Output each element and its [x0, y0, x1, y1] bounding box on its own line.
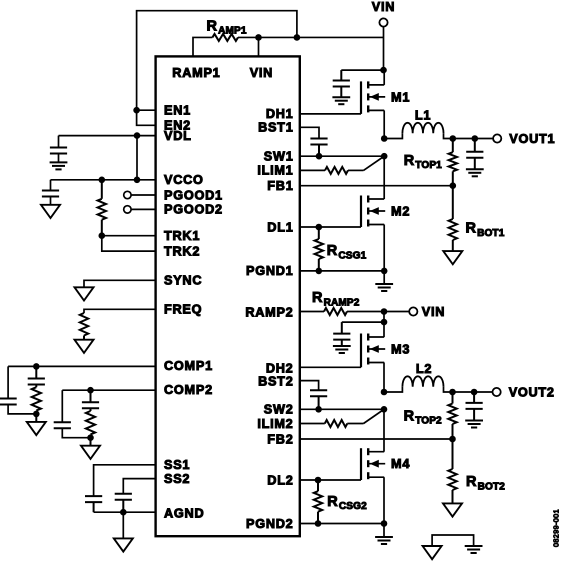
svg-text:BST2: BST2: [258, 375, 293, 389]
node EN1: [133, 107, 140, 114]
svg-text:M1: M1: [391, 90, 410, 104]
svg-text:EN1: EN1: [164, 104, 191, 118]
ground (tie, analog): [423, 546, 442, 559]
svg-text:L2: L2: [416, 362, 432, 376]
figure number 08299-001: [552, 509, 561, 547]
ground (R_BOT1): [443, 251, 462, 264]
node PGND1: [381, 268, 388, 275]
svg-text:PGND1: PGND1: [246, 264, 293, 278]
resistor R_ILIM1: [325, 167, 348, 174]
ground (tie, power): [465, 546, 483, 553]
svg-text:DL2: DL2: [267, 473, 293, 487]
node SW1: [381, 153, 388, 160]
inductor L1: [384, 109, 453, 139]
wire RAMP2 to VIN2: [347, 311, 409, 313]
controller U1 ADP1829: [156, 56, 300, 536]
resistor R_BOT1: [449, 186, 505, 251]
wire TRK1: [102, 235, 156, 237]
svg-text:SS2: SS2: [164, 472, 190, 486]
ground (PGND1): [375, 271, 393, 291]
node TRK tie: [99, 232, 106, 239]
node PGND2: [381, 520, 388, 527]
svg-text:VDL: VDL: [164, 129, 192, 143]
svg-text:DH1: DH1: [266, 107, 294, 121]
capacitor C_BST1: [310, 139, 327, 157]
wire VDL to VCCO: [136, 136, 138, 180]
svg-text:VIN: VIN: [250, 66, 273, 80]
transistor M3: [361, 334, 410, 368]
svg-text:VIN: VIN: [372, 0, 395, 14]
node VDL: [134, 132, 141, 139]
resistor R_CSG1: [315, 227, 367, 271]
wire FREQ: [84, 309, 156, 313]
wire BST2: [300, 381, 319, 391]
svg-text:R: R: [207, 18, 218, 34]
resistor R_FREQ: [80, 313, 88, 336]
resistor R_COMP1: [32, 385, 41, 411]
ground (COMP1): [27, 414, 46, 435]
wire PGND1: [300, 270, 384, 272]
wire PGND2: [300, 523, 384, 525]
svg-text:VOUT2: VOUT2: [509, 386, 555, 400]
node VIN2 cap tap: [381, 319, 388, 326]
capacitor C_IN1: [333, 70, 350, 86]
svg-text:BOT1: BOT1: [477, 228, 505, 239]
svg-text:AGND: AGND: [164, 506, 204, 520]
svg-text:M3: M3: [391, 342, 410, 356]
wire DH2: [300, 366, 361, 368]
wire M1 drain: [383, 70, 385, 85]
wire SYNC: [84, 280, 156, 287]
wire TRK2: [102, 236, 156, 251]
svg-text:TOP2: TOP2: [415, 416, 442, 427]
inductor L2: [384, 362, 453, 392]
svg-text:FB1: FB1: [267, 179, 293, 193]
capacitor C_VDL: [50, 136, 67, 154]
svg-text:RAMP2: RAMP2: [245, 305, 293, 319]
wire COMP1: [8, 365, 156, 367]
wire M4 source: [383, 477, 385, 523]
ground (AGND): [114, 512, 133, 551]
wire FB1: [300, 185, 453, 187]
resistor R_TRK: [98, 180, 106, 236]
ground (C_OUT1): [466, 158, 484, 177]
wire FB2: [300, 438, 453, 440]
VIN terminal (top): [372, 0, 395, 26]
svg-text:CSG2: CSG2: [339, 501, 367, 512]
node DL1-RCSG1: [316, 224, 323, 231]
ground (VCCO cap): [41, 197, 60, 219]
svg-text:PGOOD1: PGOOD1: [164, 188, 223, 202]
wire RAMP1 resistor to VIN: [238, 36, 384, 38]
svg-text:R: R: [404, 408, 415, 424]
svg-text:VIN: VIN: [422, 305, 445, 319]
transistor M4: [361, 448, 410, 480]
wire VCCO: [51, 179, 156, 181]
wire DL2: [300, 479, 361, 481]
wire SW2 to M4 drain: [383, 409, 385, 451]
svg-text:FB2: FB2: [267, 432, 293, 446]
node COMP1: [33, 363, 40, 370]
svg-text:BOT2: BOT2: [478, 481, 506, 492]
svg-text:PGOOD2: PGOOD2: [164, 203, 223, 217]
wire VIN terminal to VIN node: [383, 27, 385, 71]
node AGND: [120, 509, 127, 516]
node DL2-RCSG2: [315, 477, 322, 484]
wire DH1: [300, 113, 361, 115]
wire ILIM2 lead: [300, 423, 325, 425]
svg-text:R: R: [327, 494, 338, 510]
svg-text:ILIM1: ILIM1: [257, 164, 293, 178]
svg-text:FREQ: FREQ: [164, 303, 202, 317]
wire DL1: [300, 226, 361, 228]
resistor R_RAMP2: [312, 290, 360, 315]
svg-text:AMP1: AMP1: [218, 26, 247, 37]
wire EN2 pin: [137, 110, 156, 125]
wire VOUT2: [453, 391, 493, 393]
node COMP2: [87, 387, 94, 394]
node BST1-SW1: [316, 153, 323, 160]
node VIN2: [381, 308, 388, 315]
svg-text:TRK2: TRK2: [164, 244, 200, 258]
node L1 out: [450, 135, 457, 142]
wire SW2: [300, 408, 384, 410]
svg-text:L1: L1: [415, 109, 431, 123]
transistor M1: [361, 81, 410, 114]
svg-text:R: R: [466, 221, 477, 237]
resistor R_COMP2: [86, 408, 95, 434]
resistor R_CSG2: [314, 480, 367, 524]
wire VIN pin: [258, 37, 260, 56]
svg-text:DH2: DH2: [266, 361, 294, 375]
wire ILIM2 to SW2: [347, 409, 384, 423]
wire VOUT1: [453, 138, 493, 140]
ground (C_OUT2): [465, 409, 483, 428]
wire M3 drain: [383, 322, 385, 337]
capacitor C_SS2: [115, 494, 132, 512]
node RCSG1-PGND1: [316, 268, 323, 275]
wire SW1: [300, 155, 384, 157]
svg-text:VCCO: VCCO: [164, 173, 204, 187]
wire EN1 pin: [137, 109, 156, 111]
node FB1: [450, 182, 457, 189]
wire SS2: [123, 479, 155, 494]
node RCSG2-PGND2: [315, 520, 322, 527]
svg-text:TOP1: TOP1: [415, 160, 442, 171]
PGOOD1 terminal: [124, 191, 156, 198]
svg-text:DL1: DL1: [267, 220, 293, 234]
wire to C_IN2: [342, 321, 384, 323]
wire SW to M2 drain: [383, 156, 385, 199]
ground (VDL cap): [50, 154, 68, 170]
node L2 out: [449, 389, 456, 396]
capacitor C_COMP2 parallel: [54, 390, 91, 438]
node VCCO-RTRK: [99, 177, 106, 184]
ground (COMP2): [81, 438, 100, 459]
node SW-L1: [381, 135, 388, 142]
svg-text:TRK1: TRK1: [164, 229, 200, 243]
wire AGND-PGND tie: [432, 535, 474, 546]
svg-text:M4: M4: [391, 457, 410, 471]
ground (PGND2): [375, 524, 393, 545]
wire VIN2 down: [383, 312, 385, 323]
node COMP1 gnd tie: [33, 411, 40, 418]
capacitor C_IN2: [333, 322, 350, 340]
node FB2: [449, 436, 456, 443]
node VIN pin tap: [255, 34, 262, 41]
svg-text:VOUT1: VOUT1: [509, 132, 555, 146]
VIN2 terminal: [409, 305, 445, 319]
PGOOD2 terminal: [124, 206, 156, 213]
capacitor C_COMP1 series: [28, 366, 45, 384]
wire BST1: [300, 127, 319, 138]
capacitor C_SS1: [85, 496, 102, 512]
wire M3 source to SW2: [383, 363, 385, 393]
svg-text:PGND2: PGND2: [246, 517, 293, 531]
VOUT2 terminal: [493, 386, 555, 400]
node C_OUT1 tap: [472, 135, 479, 142]
wire VIN node to C_IN1: [341, 69, 383, 71]
svg-text:BST1: BST1: [258, 121, 293, 135]
node BST2-SW2: [315, 406, 322, 413]
wire ILIM1 to SW: [348, 156, 384, 170]
node SW2-L2: [381, 389, 388, 396]
svg-text:SW2: SW2: [264, 403, 294, 417]
svg-text:SW1: SW1: [264, 150, 294, 164]
svg-text:ILIM2: ILIM2: [257, 417, 293, 431]
ground (R_BOT2): [443, 503, 462, 516]
svg-text:COMP1: COMP1: [164, 359, 213, 373]
resistor R_ILIM2: [325, 420, 348, 427]
wire EN loop: [137, 11, 297, 111]
resistor R_TOP1: [404, 139, 457, 186]
wire COMP2: [62, 389, 155, 391]
svg-text:R: R: [327, 243, 338, 259]
ground (FREQ): [75, 336, 94, 353]
svg-text:R: R: [312, 290, 323, 306]
svg-text:RAMP1: RAMP1: [172, 66, 220, 80]
ground (C_IN2): [333, 340, 351, 353]
svg-text:R: R: [404, 153, 415, 169]
svg-text:SYNC: SYNC: [164, 274, 202, 288]
capacitor C_BST2: [310, 390, 327, 409]
node EN loop tap: [294, 34, 301, 41]
wire VDL: [59, 135, 156, 137]
node C_OUT2 tap: [471, 389, 478, 396]
resistor RAMP1: [207, 18, 247, 41]
wire AGND: [94, 511, 156, 513]
ground (SYNC): [75, 287, 94, 300]
node VIN1: [380, 67, 387, 74]
svg-text:M2: M2: [391, 204, 410, 218]
wire SS1: [94, 465, 156, 496]
capacitor C_COMP1 parallel: [0, 366, 36, 414]
capacitor C_OUT1: [466, 139, 483, 158]
wire M1 source to SW: [383, 110, 385, 138]
svg-text:R: R: [466, 474, 477, 490]
capacitor C_VCCO: [42, 180, 59, 197]
wire ILIM1 lead: [300, 169, 325, 171]
VOUT1 terminal: [493, 132, 555, 146]
wire RAMP1 pin to resistor: [193, 37, 212, 56]
svg-text:CSG1: CSG1: [338, 250, 366, 261]
ground (C_IN1): [332, 87, 350, 105]
svg-text:08299-001: 08299-001: [552, 509, 561, 547]
wire RAMP2 lead: [300, 311, 324, 313]
node VCCO-VDL: [134, 177, 141, 184]
node SW2: [381, 406, 388, 413]
resistor R_BOT2: [448, 439, 505, 503]
capacitor C_COMP2 series: [82, 390, 99, 408]
svg-text:RAMP2: RAMP2: [324, 297, 360, 308]
svg-text:SS1: SS1: [164, 458, 190, 472]
svg-text:COMP2: COMP2: [164, 383, 213, 397]
capacitor C_OUT2: [466, 392, 483, 409]
wire M2 source: [383, 225, 385, 271]
transistor M2: [361, 196, 410, 228]
resistor R_TOP2: [404, 392, 457, 439]
node COMP2 gnd tie: [87, 434, 94, 441]
